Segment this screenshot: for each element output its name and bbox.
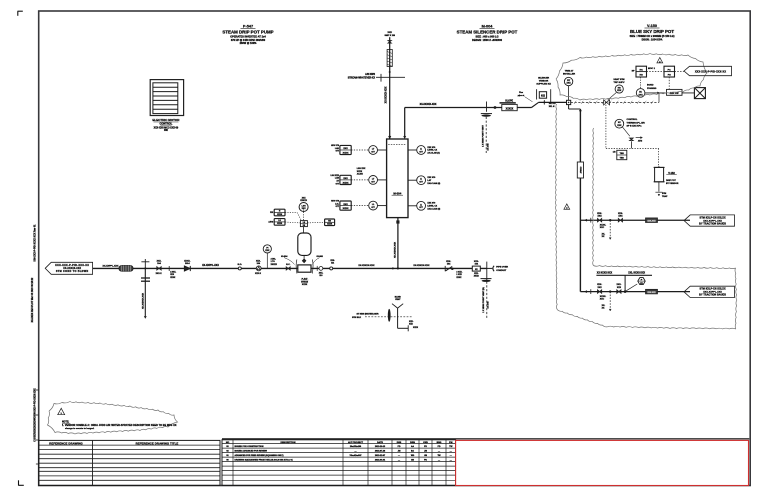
svg-text:STREAM-WHATEVER-XX: STREAM-WHATEVER-XX [348,77,376,80]
svg-text:XXXX: XXXX [343,153,349,155]
svg-text:ISSUED FOR CONSTRUCTION: ISSUED FOR CONSTRUCTION [235,446,264,448]
svg-text:LAH: LAH [335,147,340,150]
svg-text:JM: JM [424,451,427,453]
svg-text:ATM: ATM [638,140,643,143]
svg-text:JM: JM [424,455,427,457]
svg-text:CONTROL: CONTROL [159,122,172,126]
svg-text:REFERENCE DRAWING TITLE: REFERENCE DRAWING TITLE [136,441,179,445]
svg-text:BY VENDOR: BY VENDOR [666,183,679,185]
svg-text:—: — [450,451,452,453]
svg-text:PC: PC [668,69,671,71]
svg-text:110: 110 [319,275,322,277]
svg-text:DATE: DATE [377,441,383,444]
svg-text:TRAP: TRAP [662,195,668,198]
svg-text:STM-XXLP-XX-XXLXX: STM-XXLP-XX-XXLXX [700,289,726,291]
svg-text:TBD: TBD [620,158,625,160]
svg-text:NO: NO [226,442,230,444]
svg-text:2023-12-07: 2023-12-07 [375,455,386,457]
svg-text:STEAM DRIP POT PUMP: STEAM DRIP POT PUMP [222,29,273,34]
svg-text:1. VENDOR SOMBLE A: ORDA JUDD: 1. VENDOR SOMBLE A: ORDA JUDD A/R WATER-… [62,424,177,427]
svg-text:256W @ 100%: 256W @ 100% [240,42,258,45]
svg-text:LSH XXX: LSH XXX [330,175,339,177]
svg-text:XALCLAM (4): XALCLAM (4) [427,182,440,185]
svg-text:F/R: F/R [270,212,274,214]
svg-text:XXX 079: XXX 079 [427,147,436,149]
svg-text:XX-XXXX REV-PLOT Mar 03 2023: XX-XXXX REV-PLOT Mar 03 2023 09:18:22 [31,277,34,322]
svg-text:XXXX: XXXX [474,276,480,278]
svg-text:622: 622 [541,95,546,98]
svg-text:XXXX: XXXX [413,327,419,329]
svg-text:LEVEL CX: LEVEL CX [427,150,437,152]
svg-text:CKD: CKD [423,442,428,444]
svg-text:PIGGING: PIGGING [647,88,657,90]
svg-text:XXL-XXXX-XXX: XXL-XXXX-XXX [628,273,645,275]
svg-text:XXL N: XXL N [549,106,555,108]
svg-text:V-150: V-150 [647,24,657,28]
svg-text:TRIM AT: TRIM AT [565,69,574,72]
svg-text:XXXX: XXXX [302,284,308,286]
svg-text:LSH XXX: LSH XXX [357,168,366,170]
svg-text:XXXX: XXXX [327,224,333,226]
svg-text:XXX-X: XXX-X [255,273,262,275]
svg-text:XX-XXXXX-XXX: XX-XXXXX-XXX [420,104,437,106]
svg-text:XXX: XXX [617,90,622,92]
svg-text:BY TRACTION BAUER: BY TRACTION BAUER [699,222,726,225]
svg-text:SP B XXX KPa: SP B XXX KPa [627,126,643,128]
svg-text:ALB/X: ALB/X [357,173,364,176]
svg-text:2023-07-28: 2023-07-28 [375,451,386,453]
svg-text:INSTALLER: INSTALLER [563,73,576,76]
svg-text:DESCRIPTION: DESCRIPTION [281,442,296,444]
svg-text:XXX: XXX [567,83,572,85]
svg-text:STEAM SILENCER DRIP POT: STEAM SILENCER DRIP POT [457,29,518,34]
svg-text:XXX: XXX [617,125,622,127]
svg-text:—: — [450,460,452,462]
svg-text:THERMOCPL-X/R: THERMOCPL-X/R [627,122,646,124]
svg-text:DSGN : 1034 KPA: DSGN : 1034 KPA [642,38,663,41]
svg-text:—: — [398,460,400,462]
svg-text:2023-10-13: 2023-10-13 [375,446,386,448]
svg-text:PM: PM [449,442,452,444]
svg-text:REFERENCE DRAWING: REFERENCE DRAWING [49,441,83,445]
svg-text:XX-XXXXX-XXX: XX-XXXXX-XXX [385,86,387,103]
svg-text:2 DIA.: 2 DIA. [271,258,277,261]
svg-text:HEAT STM: HEAT STM [613,78,624,81]
svg-text:VENT: VENT [395,299,401,301]
svg-text:XXX: XXX [388,32,393,34]
svg-text:STEAM: STEAM [301,280,308,283]
svg-text:20wXXw199: 20wXXw199 [350,446,362,448]
svg-text:pipe at: pipe at [518,94,525,97]
svg-text:XXXXX: XXXXX [271,264,278,266]
svg-text:LSH: LSH [302,205,307,207]
svg-text:XXX: XXX [265,250,270,252]
svg-text:LEVEL CX: LEVEL CX [427,206,437,208]
svg-text:ISSUED ADVANCED FOR REVIEW: ISSUED ADVANCED FOR REVIEW [235,450,267,453]
svg-text:ISN-XXX-P-PID-XXXX-XXX Rev 01: ISN-XXX-P-PID-XXXX-XXX Rev 01 [34,224,36,262]
svg-text:2023-06-01: 2023-06-01 [375,460,386,462]
svg-text:XXXX: XXXX [357,171,363,173]
svg-text:XXX: XXX [343,204,348,206]
svg-text:M-004: M-004 [393,191,401,195]
svg-text:XXX-XXPPL-XXX: XXX-XXPPL-XXX [703,220,722,222]
svg-text:—: — [355,451,357,453]
svg-text:XALCLAM (4): XALCLAM (4) [427,207,440,210]
svg-text:—: — [450,455,452,457]
svg-text:XXXX: XXXX [170,277,176,279]
svg-text:DRAWING SQUAMISHED FROM 7455.A: DRAWING SQUAMISHED FROM 7455.AB.GG.20 SB… [235,459,294,462]
svg-text:XXXXX: XXXXX [300,200,307,202]
svg-text:XXX 079: XXX 079 [427,177,436,179]
svg-text:MOC 1: MOC 1 [648,68,656,70]
svg-text:XXXX: XXXX [277,223,283,225]
svg-text:ST NBN (WATER) SER: ST NBN (WATER) SER [357,313,379,316]
svg-text:DRN: DRN [410,442,415,444]
svg-text:XXXXX: XXXXX [506,108,514,110]
svg-text:XXXX: XXXX [343,183,349,185]
svg-text:TBD: TBD [620,153,625,155]
svg-text:XXXX: XXXX [343,208,349,210]
svg-text:XXX: XXX [598,287,603,289]
svg-text:XXX: XXX [343,178,348,180]
svg-text:XXX-XXX-MCC-XXX-09: XXX-XXX-MCC-XXX-09 [154,127,179,129]
svg-text:SMP X 2M: SMP X 2M [384,35,395,37]
svg-text:—: — [438,451,440,453]
svg-text:BY TRACTION BAUER: BY TRACTION BAUER [699,294,726,297]
svg-text:HC: HC [640,69,644,71]
svg-text:XXC: XXC [600,227,605,229]
svg-text:XXX-X: XXX-X [156,273,163,275]
svg-text:XX-XXXXX-XXX: XX-XXXXX-XXX [358,265,375,267]
svg-text:XXX: XXX [618,215,623,217]
svg-text:DESGN : 2500 # +650/300: DESGN : 2500 # +650/300 [472,39,503,42]
svg-text:A/S NWS: A/S NWS [365,73,375,76]
svg-text:PIPE OVER: PIPE OVER [496,267,508,269]
svg-text:DES: DES [397,442,402,444]
svg-text:DRIP POT: DRIP POT [666,180,677,182]
svg-text:XC: XC [639,91,642,93]
svg-text:VENDOR: VENDOR [539,81,549,83]
svg-text:7GwADw007: 7GwADw007 [349,454,362,457]
svg-text:XXX: XXX [343,148,348,150]
svg-text:1 X HIGH POINT VENT: 1 X HIGH POINT VENT [482,124,484,147]
svg-text:XX-XXXXX-XXX: XX-XXXXX-XXX [394,241,396,258]
svg-text:1 X HIGH POINT VENT (R): 1 X HIGH POINT VENT (R) [483,287,485,313]
svg-text:change to counts to barged.: change to counts to barged. [65,427,95,430]
svg-text:XXX-XXPPL-XXX: XXX-XXPPL-XXX [703,292,722,294]
svg-text:TW: TW [437,455,440,457]
svg-text:XXX-XXX-P-PID-XXX-XX: XXX-XXX-P-PID-XXX-XX [695,70,727,73]
svg-text:STM-XXLP-XX-XXLXX: STM-XXLP-XX-XXLXX [700,217,726,219]
svg-text:XX-XXXX-XXX: XX-XXXX-XXX [597,273,613,275]
svg-text:XXX: XXX [598,215,603,217]
svg-text:BOND: BOND [647,85,654,87]
svg-text:XXC: XXC [600,298,605,300]
svg-text:A/HS: A/HS [268,221,273,224]
svg-text:ALT PROJECT: ALT PROJECT [348,441,364,444]
svg-text:XXX-XXX-P-PID-XXX-XX: XXX-XXX-P-PID-XXX-XX [55,264,89,267]
svg-text:—: — [438,460,440,462]
svg-text:—: — [398,455,400,457]
svg-text:XXX: XXX [302,208,307,210]
svg-text:SILENCER: SILENCER [538,78,549,80]
svg-text:XXXX: XXXX [456,277,462,279]
svg-text:M-004: M-004 [482,25,494,29]
svg-text:XXX: XXX [617,287,622,289]
svg-text:HSV 079: HSV 079 [331,145,340,147]
svg-text:ENG: ENG [437,442,442,444]
svg-text:P-547: P-547 [243,25,253,29]
svg-text:STN BLK: STN BLK [352,317,362,319]
svg-text:XX-XXXXX-XXX: XX-XXXXX-XXX [142,292,144,309]
svg-text:XXX 079: XXX 079 [427,203,436,205]
svg-text:AH-CLAM (4): AH-CLAM (4) [427,152,440,155]
svg-text:N.C.: N.C. [286,264,291,266]
svg-text:TRP SUPV: TRP SUPV [614,82,625,84]
svg-text:XXX-XXX: XXX-XXX [647,220,656,222]
svg-text:63-004: 63-004 [281,255,288,258]
svg-text:CONTROL: CONTROL [627,119,638,121]
svg-text:STM COND TO BLDWN: STM COND TO BLDWN [56,270,89,273]
svg-text:CONDUIT: CONDUIT [496,270,507,272]
svg-text:XX-XXPPL-XXX: XX-XXPPL-XXX [202,265,219,267]
svg-text:HS: HS [640,75,644,77]
svg-text:XX ATM: XX ATM [487,301,490,308]
svg-text:WD: WD [411,455,415,457]
svg-text:LAB: LAB [335,177,340,180]
svg-text:XXX-XXX: XXX-XXX [647,292,656,294]
svg-text:XX ATM: XX ATM [486,143,489,150]
svg-text:SLOPE: SLOPE [505,100,513,102]
svg-text:N.O.: N.O. [238,264,243,266]
svg-text:TW: TW [449,446,452,448]
svg-text:JM: JM [398,451,401,453]
svg-text:ADVANCED FOR FEED REVIEW (SQUA: ADVANCED FOR FEED REVIEW (SQUAMISH ONLY) [235,454,284,457]
svg-text:BLUE SKY DRIP POT: BLUE SKY DRIP POT [630,29,674,34]
svg-text:XX-XXPPL-XXX: XX-XXPPL-XXX [103,265,119,267]
svg-text:ARG10: ARG10 [579,166,582,174]
svg-text:XXXX: XXXX [277,214,283,216]
svg-text:XX-XXXXX-XXX: XX-XXXXX-XXX [413,265,430,267]
svg-text:HSV 079: HSV 079 [331,201,340,203]
svg-text:63-008: 63-008 [316,256,323,258]
svg-text:SUPPLIED XX: SUPPLIED XX [536,84,551,86]
